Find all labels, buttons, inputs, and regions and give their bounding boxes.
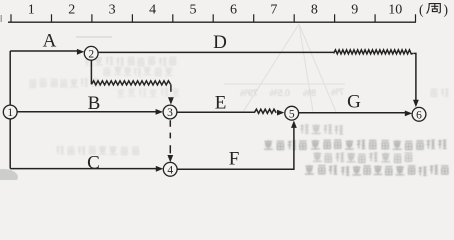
bleed-through text upper middle rows <box>85 57 176 66</box>
svg-text:7%: 7% <box>331 87 344 97</box>
svg-text:7: 7 <box>270 3 277 18</box>
activity D line node2 right <box>98 51 334 53</box>
bleed right of node6 <box>431 89 449 97</box>
svg-text:8: 8 <box>311 3 318 18</box>
svg-text:8%: 8% <box>303 88 316 98</box>
svg-text:B: B <box>88 93 101 114</box>
bleed-through text bottom left <box>56 146 139 155</box>
ruler numbers 1-10 <box>28 3 403 18</box>
svg-text:0.5%: 0.5% <box>269 88 290 98</box>
bleed percents (mirrored) <box>240 87 344 98</box>
svg-text:C: C <box>87 152 100 173</box>
activity E line node3 to node5 <box>177 111 254 113</box>
svg-text:E: E <box>215 92 227 113</box>
svg-text:(: ( <box>419 2 424 17</box>
scan edge mark top left <box>0 15 2 22</box>
wire node1 down to C row <box>9 119 11 169</box>
bleed-through text block bottom right <box>300 125 343 135</box>
svg-text:79%: 79% <box>240 88 258 98</box>
D corner down to node6 <box>413 53 416 100</box>
svg-text:2: 2 <box>88 48 94 60</box>
svg-text:A: A <box>43 31 57 52</box>
svg-text:9: 9 <box>351 3 358 18</box>
activity G arrow node5 to node6 <box>299 112 406 114</box>
dashed link node3 to node4 <box>169 120 171 153</box>
svg-text:4: 4 <box>167 164 173 176</box>
activity B arrow node1 to node3 <box>17 111 156 113</box>
node 6 <box>412 107 426 121</box>
svg-text:6: 6 <box>416 109 422 121</box>
activity C arrow node1 to node4 <box>10 168 156 170</box>
node 3 <box>163 105 177 119</box>
svg-text:10: 10 <box>388 3 402 18</box>
unit label (zhou = week) <box>419 2 448 17</box>
free float wavy of E <box>254 109 276 113</box>
bleed-through triangle watermark <box>224 24 345 112</box>
node 5 <box>285 106 299 120</box>
svg-text:D: D <box>213 32 227 53</box>
svg-text:2: 2 <box>68 3 75 18</box>
time-scale ruler baseline <box>8 21 416 23</box>
node 4 <box>163 162 177 176</box>
svg-text:3: 3 <box>167 107 173 119</box>
scan shadow bottom-left corner <box>0 169 18 185</box>
svg-text:): ) <box>444 2 449 17</box>
svg-text:3: 3 <box>109 3 116 18</box>
node 2 <box>84 46 98 60</box>
activity A arrow node1 to node2 <box>10 50 77 52</box>
svg-text:1: 1 <box>7 107 13 119</box>
svg-text:F: F <box>229 149 240 170</box>
node 1 <box>3 105 17 119</box>
ruler ticks <box>11 14 416 22</box>
dashed drop to node3 <box>170 84 172 91</box>
bleed smudge above node 2 <box>76 36 112 38</box>
free float wavy of D <box>334 50 414 54</box>
svg-text:G: G <box>347 92 361 113</box>
svg-text:6: 6 <box>230 3 237 18</box>
svg-text:5: 5 <box>190 3 197 18</box>
svg-text:5: 5 <box>289 108 295 120</box>
svg-text:4: 4 <box>149 3 156 18</box>
activity F line node4 to below node5 <box>177 127 294 169</box>
free float wavy below node2 <box>90 60 92 84</box>
svg-text:1: 1 <box>28 3 35 18</box>
wire node1 up to A row <box>9 51 11 105</box>
